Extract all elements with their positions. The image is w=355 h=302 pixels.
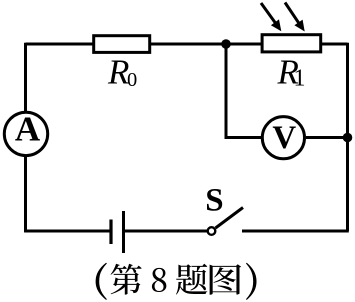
caption char Tu (图) [210, 264, 242, 294]
switch pivot circle [208, 227, 216, 235]
svg-text:V: V [272, 120, 296, 156]
wire right vertical [346, 43, 349, 231]
svg-text:S: S [205, 183, 223, 219]
battery long plate (positive) [122, 211, 125, 253]
voltmeter V circle [262, 117, 304, 159]
wire R1 to top-right corner [322, 43, 348, 46]
wire left vertical lower [24, 157, 27, 232]
wire between R0 and junction [150, 43, 262, 46]
switch lever [216, 208, 244, 229]
caption char Ti (题) [176, 264, 207, 295]
light arrow 1 head [271, 19, 281, 31]
caption close paren [246, 263, 257, 300]
light arrow 2 head [294, 20, 304, 32]
svg-text:A: A [15, 110, 41, 149]
wire battery to switch [125, 230, 208, 233]
wire voltmeter branch vertical [226, 44, 261, 138]
ammeter A circle [4, 112, 47, 155]
resistor R0 box [94, 36, 150, 53]
light arrow 1 shaft [261, 3, 277, 25]
wire top-left horizontal [26, 43, 94, 46]
caption char Di (第) [111, 264, 142, 295]
light arrow 2 shaft [285, 3, 300, 25]
svg-text:0: 0 [127, 69, 137, 91]
wire left vertical upper [24, 43, 27, 111]
svg-text:1: 1 [294, 66, 306, 92]
wire voltmeter to right junction [306, 136, 348, 139]
junction node dot right (voltmeter) [343, 133, 353, 143]
photoresistor R1 box [262, 35, 321, 52]
wire bottom left [24, 230, 110, 233]
wire bottom right (switch to corner) [242, 230, 349, 233]
caption open paren [96, 263, 107, 300]
caption digit 8 [152, 268, 167, 292]
battery short plate (negative) [109, 220, 112, 245]
junction node dot top (R1 branch) [221, 39, 231, 49]
